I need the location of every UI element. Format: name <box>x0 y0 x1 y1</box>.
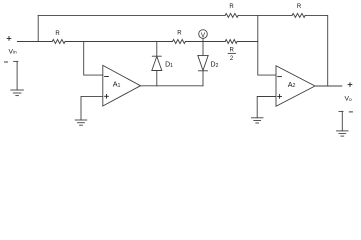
svg-text:Vin: Vin <box>9 48 18 55</box>
svg-text:D1: D1 <box>165 62 173 69</box>
resistor R4 (feedback) <box>292 13 305 17</box>
pin - of A1 <box>105 76 109 78</box>
wire: main horizontal input line from + terminal to R1 <box>17 41 52 43</box>
node Vo - terminal label <box>349 111 352 113</box>
wire: main line from R/2 to summing bus <box>237 41 258 43</box>
diode D1 (cathode up, to inverting node) <box>152 42 162 86</box>
wire: main line from R2 to node V <box>185 41 225 43</box>
wire: A1 output bus to diodes <box>141 85 204 87</box>
resistor R5 (R/2) <box>225 40 237 44</box>
node Vin + terminal label <box>7 37 11 41</box>
wire: tick at top of output ground stem <box>339 110 343 112</box>
svg-text:R: R <box>177 30 182 36</box>
node V (circled) <box>199 30 208 39</box>
diode D2 (cathode down, from node V to A1 output) <box>198 42 208 86</box>
svg-text:D2: D2 <box>211 62 219 69</box>
wire: top line from input node to R3 <box>38 14 225 16</box>
svg-text:R: R <box>55 31 60 37</box>
resistor R2 <box>173 40 186 44</box>
node Vin - terminal label <box>5 61 8 63</box>
wire: main line from R1 to R2, passing A1 inverting node and D1 node <box>65 41 172 43</box>
svg-text:R: R <box>229 4 234 10</box>
fraction bar of R/2 <box>228 52 235 54</box>
wire: stub from circle V to main line <box>202 38 204 41</box>
svg-text:A1: A1 <box>113 80 121 89</box>
svg-text:Vo: Vo <box>345 96 352 103</box>
node Vo + terminal label <box>348 83 352 87</box>
wire: tick at top of input ground stem <box>14 60 18 62</box>
resistor R1 <box>52 40 65 44</box>
svg-text:R: R <box>230 47 235 53</box>
wire: top line from R3 to R4 <box>238 14 292 16</box>
wire: output ground stem <box>341 111 343 130</box>
svg-text:2: 2 <box>230 56 234 62</box>
label R/2 fraction <box>230 47 235 61</box>
wire: input ground stem <box>16 61 18 90</box>
wire: vertical branch down to A1 inverting input <box>84 42 103 76</box>
wire: top line from R4 to right corner, down to A2 output <box>305 15 328 86</box>
pin - of A2 <box>278 76 282 78</box>
wire: vertical from input node up to top feedback line <box>37 15 39 41</box>
wire: A1 non-inverting input to ground <box>81 96 103 120</box>
wire: summing bus vertical (top line to A2 inverting input) <box>258 15 276 75</box>
pin + of A2 <box>278 95 282 99</box>
op-amp A1 <box>103 65 141 106</box>
svg-text:A2: A2 <box>288 80 296 89</box>
svg-text:R: R <box>297 4 302 10</box>
wire: A2 non-inverting input to ground <box>257 97 276 118</box>
op-amp A2 <box>276 66 315 107</box>
resistor R3 (top, to summing junction) <box>225 13 238 17</box>
ground (input source) <box>11 90 24 96</box>
wire: A2 output to Vo terminal <box>315 85 342 87</box>
ground (output) <box>337 131 349 136</box>
pin + of A1 <box>105 94 109 98</box>
ground (A2 + input) <box>251 118 263 123</box>
ground (A1 + input) <box>75 120 87 125</box>
